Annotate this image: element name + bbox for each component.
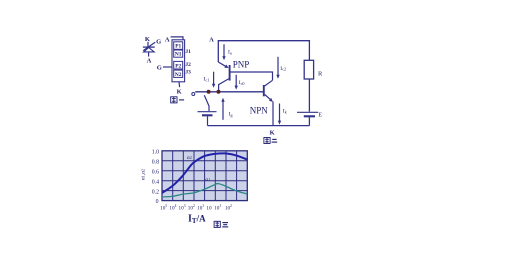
svg-text:N2: N2 <box>175 72 182 78</box>
svg-text:Ik: Ik <box>283 109 288 115</box>
node line: gate node O to NPN base <box>195 91 263 93</box>
x axis tick labels <box>160 204 232 211</box>
layer P2 <box>174 61 183 69</box>
svg-text:R: R <box>318 71 323 78</box>
op PNP emitter wire with arrow <box>218 62 225 66</box>
svg-text:Ic1: Ic1 <box>204 77 210 83</box>
svg-text:A: A <box>209 36 214 43</box>
svg-text:0: 0 <box>156 199 159 205</box>
wire: R to battery E <box>308 79 310 112</box>
transistor V1 PNP base bar <box>229 65 231 81</box>
svg-text:103: 103 <box>179 204 186 211</box>
current Ig arrow <box>222 101 224 119</box>
svg-text:J2: J2 <box>185 62 191 68</box>
svg-text:α1,α2: α1,α2 <box>141 169 147 180</box>
structure: gate lead wire <box>163 66 172 68</box>
wire: bottom cathode rail <box>208 125 310 127</box>
svg-text:G: G <box>156 39 161 46</box>
wire: NPN collector slant <box>265 80 273 86</box>
svg-text:A: A <box>165 36 170 43</box>
current Ia arrow <box>223 44 225 56</box>
svg-text:10: 10 <box>206 205 212 211</box>
svg-text:PNP: PNP <box>233 59 250 69</box>
svg-text:Ic2: Ic2 <box>280 66 286 72</box>
svg-text:G: G <box>157 65 162 72</box>
svg-text:105: 105 <box>160 204 167 211</box>
graph frame <box>162 151 247 201</box>
svg-text:101: 101 <box>214 204 221 211</box>
svg-text:0.6: 0.6 <box>152 169 159 175</box>
svg-text:104: 104 <box>169 204 176 211</box>
y axis tick labels <box>152 149 159 205</box>
svg-text:0.4: 0.4 <box>152 179 159 185</box>
op NPN emitter wire with arrow <box>265 95 271 100</box>
thyristor gate lead (diagonal) <box>143 42 155 50</box>
battery E negative plate <box>304 115 315 117</box>
wire: NPN emitter down to cathode rail <box>272 102 274 126</box>
svg-text:N1: N1 <box>175 52 182 58</box>
junction dot left <box>207 90 211 94</box>
thyristor cathode lead wire <box>147 42 149 47</box>
wire: gate battery to bottom rail <box>207 116 209 125</box>
curve alpha1 <box>162 184 247 197</box>
resistor R box <box>304 60 313 79</box>
thyristor anode lead wire <box>148 52 150 57</box>
transistor V2 NPN base bar <box>263 85 265 96</box>
svg-text:P1: P1 <box>175 44 181 50</box>
svg-text:101: 101 <box>197 204 204 211</box>
svg-text:0.2: 0.2 <box>152 189 159 195</box>
svg-text:J3: J3 <box>185 70 191 76</box>
structure: cathode lead wire <box>178 82 181 87</box>
switch S blade <box>204 95 209 111</box>
wire: battery E to bottom rail <box>308 117 310 125</box>
gate battery negative plate <box>202 114 213 116</box>
svg-text:Ig: Ig <box>229 112 234 118</box>
gate battery positive plate <box>198 111 217 113</box>
svg-text:K: K <box>270 130 275 137</box>
layer N1 <box>174 50 183 57</box>
svg-text:P2: P2 <box>175 63 181 69</box>
svg-text:102: 102 <box>225 204 232 211</box>
current Ik arrow <box>279 104 281 122</box>
svg-text:A: A <box>147 58 152 65</box>
svg-text:Ic0: Ic0 <box>239 80 245 86</box>
wire: top rail from A corner to right branch <box>218 41 309 62</box>
battery E positive plate <box>297 111 318 113</box>
caption fig1 (tu yi) <box>171 97 184 103</box>
svg-text:Ia: Ia <box>228 50 232 56</box>
current Ic2 arrow <box>277 57 279 75</box>
graph grid <box>162 151 247 201</box>
layer N2 <box>174 70 183 77</box>
svg-text:1.0: 1.0 <box>152 149 159 155</box>
current Ic0 arrow <box>235 75 237 86</box>
svg-text:J1: J1 <box>185 49 191 55</box>
thyristor triangle (anode->cathode) <box>144 48 155 52</box>
svg-text:102: 102 <box>188 204 195 211</box>
wire: PNP base to NPN collector <box>231 72 273 80</box>
svg-text:0.8: 0.8 <box>152 159 159 165</box>
graph plot background <box>162 151 247 201</box>
wire: PNP collector down-left <box>219 79 229 92</box>
caption fig2 (tu er) <box>264 138 277 144</box>
structure: outer body rectangle <box>172 40 185 82</box>
svg-text:IT/A: IT/A <box>188 213 206 225</box>
caption fig3 (tu san) <box>214 221 228 227</box>
svg-text:E: E <box>318 113 322 119</box>
gate terminal O circle <box>192 93 195 96</box>
svg-text:NPN: NPN <box>250 105 269 115</box>
svg-text:K: K <box>177 88 182 95</box>
junction dot right <box>217 90 221 94</box>
current Ic1 arrow <box>213 72 215 85</box>
thyristor cathode bar <box>143 46 155 48</box>
layer P1 <box>174 42 183 50</box>
structure: anode lead wire <box>171 37 183 40</box>
curve alpha2 <box>162 153 247 193</box>
